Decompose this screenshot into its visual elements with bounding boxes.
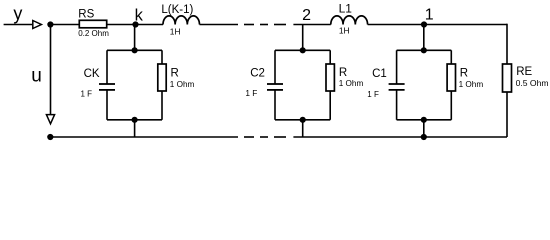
wire stub node2 down	[302, 25, 304, 51]
wire stub k down	[134, 25, 136, 51]
wire right vertical top	[506, 24, 508, 64]
wire stub1 to rail	[134, 120, 136, 137]
wire loop3 bottom	[397, 119, 452, 121]
svg-text:C1: C1	[372, 68, 387, 80]
svg-text:u: u	[31, 65, 42, 86]
wire L1 to right corner	[368, 24, 507, 26]
input arrowhead	[33, 21, 42, 29]
node loop1 bottom dot	[132, 118, 137, 123]
voltage arrow u	[50, 27, 52, 115]
capacitor C2	[274, 50, 276, 84]
resistor RE	[503, 64, 512, 92]
svg-text:1 F: 1 F	[81, 89, 93, 98]
svg-text:k: k	[135, 6, 144, 24]
resistor R branch1	[161, 50, 163, 64]
wire stub node1 down	[423, 25, 425, 51]
node k dot	[133, 22, 138, 27]
node loop1 top dot	[132, 48, 137, 53]
svg-text:1 F: 1 F	[367, 90, 379, 99]
resistor R branch2	[329, 50, 331, 64]
svg-text:1 Ohm: 1 Ohm	[170, 80, 195, 89]
wire bottom rail right	[293, 136, 507, 138]
svg-text:0.5 Ohm: 0.5 Ohm	[516, 78, 549, 88]
node A input junction dot	[48, 22, 53, 27]
svg-text:L(K-1): L(K-1)	[161, 4, 193, 16]
inductor L1	[331, 16, 368, 25]
wire bottom rail left	[50, 136, 238, 138]
wire loop1 top	[107, 49, 162, 51]
node loop2 bottom dot	[300, 118, 305, 123]
node loop3 bottom dot	[422, 118, 427, 123]
svg-text:1H: 1H	[339, 26, 350, 36]
capacitor C1	[396, 50, 398, 84]
wire stub3 to rail	[423, 120, 425, 137]
svg-text:y: y	[13, 3, 22, 23]
wire loop3 top	[397, 49, 452, 51]
wire dashed continuation bottom	[244, 136, 254, 138]
svg-text:RE: RE	[516, 66, 532, 78]
wire inductor to dashes	[200, 24, 239, 26]
svg-text:RS: RS	[78, 9, 94, 21]
node 1 dot	[422, 22, 427, 27]
svg-text:R: R	[460, 68, 468, 80]
wire to node 2 and L1	[293, 24, 330, 26]
node bottom-left dot	[48, 135, 53, 140]
inductor L(K-1)	[163, 16, 199, 25]
wire input shaft	[4, 24, 32, 26]
wire dashed continuation top	[244, 24, 254, 26]
wire stub2 to rail	[302, 120, 304, 137]
svg-text:1 Ohm: 1 Ohm	[339, 79, 364, 88]
resistor RS	[79, 20, 106, 28]
wire A to RS	[50, 24, 79, 26]
svg-text:0.2 Ohm: 0.2 Ohm	[78, 29, 109, 38]
node loop3 top dot	[422, 48, 427, 53]
node bottom junction dot under node 1	[422, 135, 427, 140]
svg-text:1 F: 1 F	[245, 88, 257, 98]
wire RS to k	[107, 24, 163, 26]
svg-text:R: R	[339, 67, 347, 79]
svg-text:1: 1	[425, 7, 434, 24]
svg-text:CK: CK	[84, 68, 100, 80]
svg-text:C2: C2	[250, 68, 265, 80]
svg-text:L1: L1	[339, 2, 353, 16]
wire loop2 top	[275, 49, 330, 51]
wire loop1 bottom	[107, 119, 162, 121]
wire loop2 bottom	[275, 119, 330, 121]
svg-text:1H: 1H	[170, 27, 181, 37]
node loop2 top dot	[300, 48, 305, 53]
capacitor CK	[106, 50, 108, 84]
svg-text:1 Ohm: 1 Ohm	[459, 80, 484, 89]
svg-text:2: 2	[302, 7, 311, 24]
svg-text:R: R	[171, 68, 179, 80]
resistor R branch3	[450, 50, 452, 64]
wire right vertical bottom	[506, 92, 508, 137]
